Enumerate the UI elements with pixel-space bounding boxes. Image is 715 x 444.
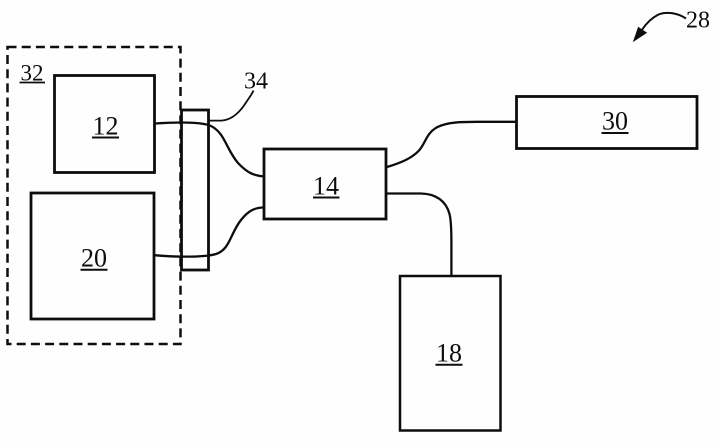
svg-text:14: 14 bbox=[313, 172, 339, 201]
svg-text:20: 20 bbox=[81, 244, 107, 273]
box 30 bbox=[517, 97, 698, 149]
box 20 bbox=[31, 193, 154, 319]
svg-text:30: 30 bbox=[602, 107, 628, 136]
label 28 bbox=[686, 8, 710, 34]
wire 14 to 30 bbox=[387, 122, 517, 167]
svg-text:34: 34 bbox=[244, 69, 268, 95]
svg-text:12: 12 bbox=[93, 112, 119, 141]
wire 20 to 14 bbox=[154, 207, 264, 256]
arrow 28 bbox=[635, 13, 687, 40]
label 34 bbox=[244, 69, 268, 95]
box 12 bbox=[55, 76, 155, 173]
wire 12 to 14 bbox=[155, 122, 264, 176]
label 32 bbox=[20, 61, 46, 86]
box 14 bbox=[264, 149, 386, 219]
svg-text:28: 28 bbox=[686, 8, 710, 34]
wire 14 to 18 bbox=[387, 194, 452, 277]
dashed enclosure 32 bbox=[8, 47, 181, 344]
box 18 bbox=[400, 276, 501, 431]
leader line 34 bbox=[209, 91, 254, 121]
svg-text:18: 18 bbox=[436, 339, 462, 368]
connector 34 bbox=[182, 110, 209, 270]
